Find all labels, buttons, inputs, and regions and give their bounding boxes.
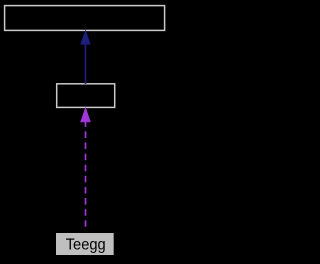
node box top (base class, empty) — [5, 6, 165, 31]
svg-text:Teegg: Teegg — [66, 236, 106, 253]
node box middle (intermediate class, empty) — [57, 84, 115, 108]
edge dashed usage arrow (Teegg to middle box) — [81, 108, 91, 229]
edge solid inheritance arrow (middle box to top box) — [81, 30, 91, 84]
node Teegg (current class, filled grey) — [56, 233, 114, 255]
